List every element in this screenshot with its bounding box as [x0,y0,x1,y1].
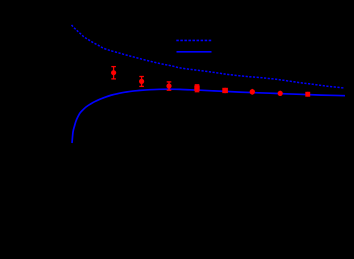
data point 7 marker [278,91,283,96]
curve: dotted blue theory curve [72,25,345,88]
data point 2 marker [139,79,144,84]
data point 6 error bar [251,89,253,95]
data point 8 error bar [307,92,309,97]
data point 5 error bar [224,88,226,93]
data point 3 marker [166,83,171,88]
data point 3 error bar [167,82,172,90]
data point 1 error bar [111,67,116,79]
data point 2 error bar [139,77,144,87]
data point 7 error bar [279,91,281,96]
data point 1 marker [111,70,116,75]
data point 4 marker [194,86,199,91]
data point 8 marker [305,92,310,97]
data point 5 marker [222,88,228,93]
data point 4 error bar [195,85,200,92]
legend solid-line sample [177,51,212,53]
curve: solid blue theory curve [72,89,345,143]
data point 6 marker [250,89,255,94]
legend dotted-line sample [176,39,211,41]
